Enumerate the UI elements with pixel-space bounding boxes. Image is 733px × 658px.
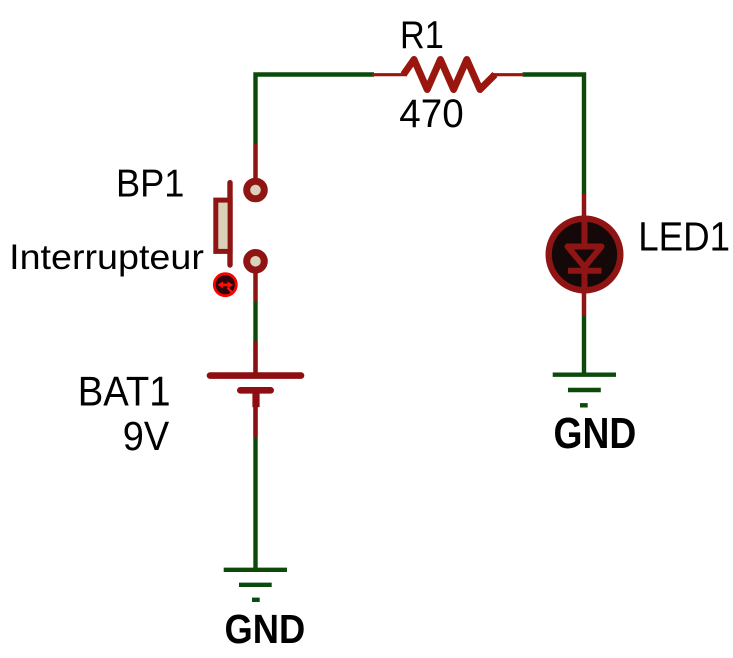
- ground symbol bottom: bar 2: [239, 583, 272, 587]
- LED1 diode triangle: [568, 247, 602, 268]
- toggle arrow tail: [228, 288, 233, 294]
- battery BAT1 positive plate: [210, 372, 301, 379]
- wire button bottom pin (red): [253, 272, 258, 301]
- wire top horizontal left (node between button and R1): [256, 75, 375, 145]
- wire button to battery (green): [253, 301, 257, 342]
- LED1 cathode bar: [568, 268, 602, 274]
- toggle arrow: [220, 283, 231, 286]
- LED1 inner anode line: [582, 217, 588, 249]
- svg-text:9V: 9V: [123, 414, 170, 460]
- ground symbol bottom: bar 3: [252, 598, 260, 602]
- ground symbol bottom: bar 1: [224, 568, 287, 572]
- LED1 cathode pin (red): [582, 291, 587, 316]
- button BP1 plunger bar: [227, 183, 232, 265]
- button BP1 bottom terminal: [247, 252, 265, 270]
- button BP1 cap rectangle: [216, 200, 230, 251]
- battery BAT1 negative stub: [252, 392, 259, 407]
- wire LED to ground (green): [582, 316, 586, 373]
- wire button top pin (red): [253, 144, 258, 179]
- svg-text:R1: R1: [400, 13, 444, 57]
- battery BAT1 bottom pin (red): [253, 393, 258, 437]
- ground symbol right: bar 3: [580, 403, 588, 407]
- ground symbol right: bar 2: [568, 388, 601, 392]
- svg-text:GND: GND: [554, 408, 637, 457]
- button BP1 interactive toggle marker: [214, 274, 236, 296]
- resistor R1 lead left: [372, 73, 407, 76]
- ground symbol right: bar 1: [553, 373, 616, 377]
- battery BAT1 negative plate: [240, 387, 270, 394]
- wire battery to ground (green): [253, 437, 257, 568]
- wire top horizontal right (node between R1 and LED): [523, 75, 585, 194]
- svg-text:BP1: BP1: [116, 161, 184, 204]
- LED1 inner cathode line: [582, 271, 588, 292]
- svg-text:Interrupteur: Interrupteur: [9, 237, 204, 277]
- battery BAT1 top pin (red): [253, 342, 258, 375]
- button BP1 top terminal: [247, 181, 265, 199]
- svg-text:GND: GND: [225, 607, 306, 652]
- svg-text:LED1: LED1: [638, 215, 730, 260]
- svg-text:BAT1: BAT1: [78, 368, 171, 415]
- resistor R1 lead right: [491, 73, 524, 76]
- LED1 anode pin (red): [582, 193, 587, 220]
- svg-text:470: 470: [399, 91, 463, 136]
- resistor R1 zigzag body: [404, 60, 496, 90]
- LED1 body circle: [549, 219, 621, 291]
